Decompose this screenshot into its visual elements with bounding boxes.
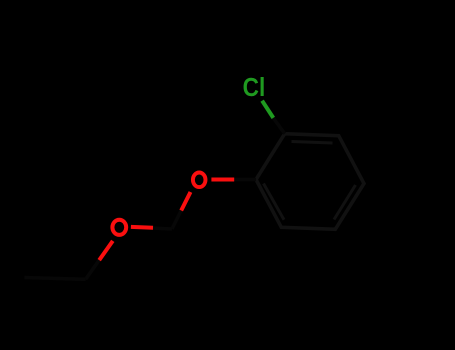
svg-text:Cl: Cl [243,74,266,103]
